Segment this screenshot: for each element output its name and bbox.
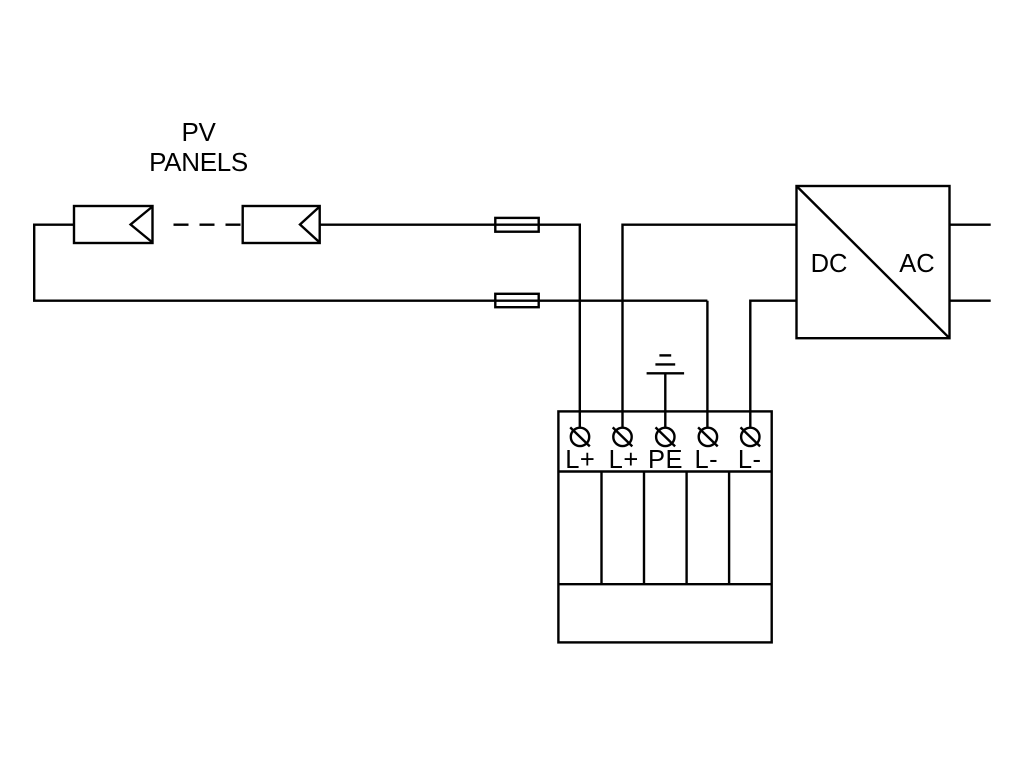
terminal 1 L+	[570, 427, 590, 446]
terminal 4 L-	[698, 427, 718, 446]
inverter U1 DC/AC converter box	[797, 186, 950, 338]
svg-text:PANELS: PANELS	[149, 147, 248, 177]
dashed wire between PV panels	[174, 223, 243, 225]
label PV PANELS	[149, 117, 248, 177]
SPD module dividers	[602, 472, 730, 585]
wire: AC output bottom	[950, 300, 991, 302]
svg-text:L-: L-	[738, 446, 762, 474]
terminal 5 L-	[741, 427, 761, 446]
ground	[647, 355, 685, 373]
wire: PE terminal to ground	[664, 373, 666, 427]
SPD base section line	[558, 583, 771, 585]
PV panel PV2	[243, 206, 320, 243]
svg-text:PV: PV	[181, 117, 216, 147]
svg-text:L+: L+	[565, 446, 595, 474]
svg-text:L-: L-	[694, 446, 718, 474]
wire: AC output top	[950, 223, 991, 225]
svg-text:DC: DC	[811, 250, 848, 278]
wire: L- feed from terminal 5 up and right to inverter DC input	[750, 301, 796, 428]
svg-text:PE: PE	[648, 446, 683, 474]
PV panel PV1	[74, 206, 153, 243]
terminal 3 PE	[656, 427, 676, 446]
svg-text:AC: AC	[899, 250, 934, 278]
surge protector SPD outline	[558, 411, 771, 642]
fuse F2	[495, 294, 538, 307]
svg-text:L+: L+	[609, 446, 639, 474]
terminal 2 L+	[613, 427, 633, 446]
wire: PV string left return (down and along bottom to L- feed)	[34, 225, 707, 301]
SPD label strip separator	[558, 470, 771, 472]
wire: PV2 output through fuse F1, down to terminal 1 L+	[320, 225, 580, 428]
wire: L+ feed from terminal 2 up and right to inverter DC input	[623, 225, 797, 428]
wire: down to terminal 4 L-	[706, 301, 708, 428]
fuse F1	[495, 218, 538, 232]
